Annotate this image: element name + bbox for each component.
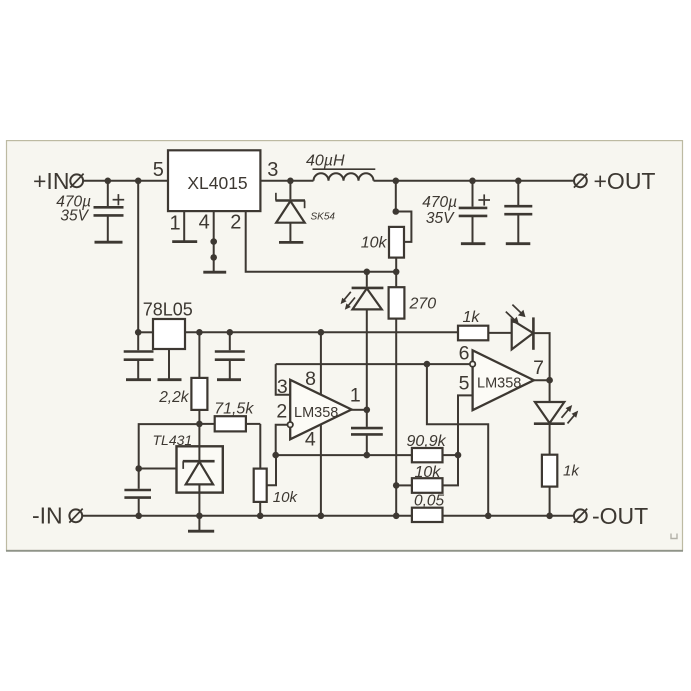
svg-text:3: 3 (267, 159, 278, 181)
node 270 top (393, 269, 400, 276)
wire pin 8 supply (320, 332, 322, 395)
svg-text:270: 270 (409, 296, 437, 313)
node C2 junction (469, 178, 476, 185)
node C7 bottom (364, 452, 371, 459)
node rail R2 chain bottom (393, 513, 400, 520)
wire D2 anode to U2 output (366, 309, 368, 409)
regulator U4 78L05 (153, 319, 185, 349)
svg-text:+OUT: +OUT (594, 168, 656, 194)
IC U1 XL4015 (168, 150, 260, 211)
wire top rail right segment (374, 180, 574, 182)
node U2 pin8 supply (318, 329, 325, 336)
wire pin 1 stub (183, 211, 185, 241)
svg-text:5: 5 (153, 159, 164, 181)
wire pin 2 feedback run (246, 211, 397, 272)
node rail C6 (135, 513, 142, 520)
wire R1 to node (395, 258, 397, 272)
node rail R5 bottom (257, 513, 264, 520)
ground bar of C1 (95, 241, 123, 244)
resistor R10 0,05 shunt (412, 508, 443, 522)
wire 5V rail (185, 331, 458, 333)
wire inverting sense net (276, 454, 412, 456)
wire R4 to R5 (259, 424, 261, 469)
node rail R9 bottom (546, 513, 553, 520)
node 10k wiper junction (393, 208, 400, 215)
resistor R1 10k (adjust) (389, 227, 404, 258)
wire pin 5 bend (458, 395, 473, 455)
terminal -OUT (574, 509, 587, 523)
wire pin 1 output stub (352, 409, 367, 411)
svg-text:1: 1 (169, 213, 180, 235)
ground bar of C5 (217, 378, 241, 381)
node 2.2k top (196, 329, 203, 336)
bubble pin 2 (U2) (288, 422, 293, 427)
wire 10k wiper loop (396, 212, 412, 242)
LED D3 indicator (512, 317, 550, 380)
node pin 5 junction (455, 452, 462, 459)
ground bar pin 4 (203, 271, 226, 274)
svg-text:1k: 1k (463, 309, 481, 326)
shunt regulator U5 TL431 (177, 424, 223, 516)
svg-text:470µ: 470µ (422, 194, 457, 211)
svg-text:SK54: SK54 (311, 212, 336, 223)
node C5 top (227, 329, 234, 336)
node rail TL431 anode (196, 513, 203, 520)
svg-text:7: 7 (533, 357, 544, 379)
arrows of D4 (562, 405, 579, 423)
ground bar of SK54 (279, 241, 303, 244)
node rail U2 pin4 (318, 513, 325, 520)
capacitor C7 (compensation) (351, 410, 383, 455)
svg-text:6: 6 (459, 343, 470, 365)
svg-text:0,05: 0,05 (414, 493, 445, 510)
svg-text:78L05: 78L05 (143, 300, 193, 320)
node C3 junction (515, 178, 522, 185)
diode D1 SK54 schottky (276, 181, 306, 242)
svg-text:XL4015: XL4015 (187, 173, 247, 193)
svg-text:-IN: -IN (32, 503, 63, 529)
node U2 output (364, 407, 371, 414)
wire ground rail left segment (82, 515, 412, 517)
svg-text:LM358: LM358 (477, 376, 521, 392)
node TL431 ref (135, 465, 142, 472)
wire 270 bottom long vertical (395, 319, 397, 516)
wire top rail mid segment (260, 180, 313, 182)
wire pin 4 stub (213, 211, 215, 271)
svg-text:2: 2 (230, 212, 241, 234)
capacitor C2 470u 35V (459, 181, 490, 243)
wire pin 2 input bend (276, 425, 288, 455)
node on pin 4 wire lower (210, 254, 217, 261)
svg-text:LM358: LM358 (294, 405, 338, 421)
node 78L05 feed junction (135, 178, 142, 185)
svg-text:35V: 35V (426, 210, 455, 227)
svg-text:2,2k: 2,2k (158, 389, 190, 406)
capacitor C5 (78L05 output) (215, 332, 245, 379)
svg-text:2: 2 (276, 401, 287, 423)
LED D4 indicator (534, 380, 565, 455)
svg-text:35V: 35V (60, 208, 89, 225)
svg-text:+IN: +IN (33, 168, 69, 194)
node LED D2 top (364, 269, 371, 276)
node U3 output (546, 377, 553, 384)
bubble pin 6 (U3) (470, 361, 475, 366)
resistor R5 10k (trimmer) (254, 455, 276, 516)
node R5 wiper junction (272, 452, 279, 459)
ground bar 78L05 (158, 378, 182, 381)
svg-text:5: 5 (459, 373, 470, 395)
stray mark bottom right (671, 534, 677, 539)
ground bar of C4 (126, 378, 151, 381)
svg-text:1: 1 (350, 385, 361, 407)
wire pin 3 input bend (276, 364, 291, 395)
resistor R8 1k (458, 326, 512, 341)
wire top rail left segment (83, 180, 168, 182)
svg-text:10k: 10k (361, 235, 388, 252)
node 10k sense top (393, 178, 400, 185)
node SK54 junction (287, 178, 294, 185)
wire tap to ground rail (427, 364, 488, 516)
svg-text:-OUT: -OUT (592, 503, 648, 529)
inductor L1 core line (313, 168, 376, 170)
resistor R7 10k (396, 455, 458, 493)
svg-text:1k: 1k (563, 463, 580, 480)
capacitor C4 (78L05 input) (124, 332, 154, 379)
wire pin 4 to ground rail (320, 425, 322, 516)
svg-text:4: 4 (199, 212, 210, 234)
svg-text:90,9k: 90,9k (407, 433, 447, 450)
terminal +OUT (574, 174, 587, 188)
node C1 junction (105, 178, 112, 185)
node R7 left (393, 482, 400, 489)
ground bar pin 1 (172, 240, 197, 243)
capacitor C1 470u 35V (94, 181, 125, 241)
node rail sense tap (485, 513, 492, 520)
wire TL431 ref run (139, 424, 200, 468)
terminal +IN (70, 174, 83, 188)
schematic panel (7, 141, 683, 551)
svg-text:8: 8 (305, 368, 316, 390)
wire 10k sense top stub (395, 181, 397, 212)
resistor R6 90,9k (412, 448, 458, 462)
terminal -IN (69, 509, 82, 523)
arrows of D3 (506, 305, 526, 325)
svg-text:TL431: TL431 (153, 432, 193, 448)
wire pin3-pin6 net (276, 363, 470, 365)
svg-text:4: 4 (305, 429, 316, 451)
wire 78L05 ground pin (168, 349, 170, 379)
ground bar of C2 (461, 242, 486, 245)
inductor L1 40uH (314, 173, 374, 180)
ground bar TL431 (188, 530, 214, 533)
wire pin 7 output stub (534, 379, 550, 381)
resistor R4 71,5k (199, 416, 260, 431)
capacitor C3 output (504, 181, 532, 243)
op-amp U2 LM358 (A) (290, 380, 351, 440)
svg-text:10k: 10k (415, 464, 442, 481)
resistor R2 270 (389, 272, 405, 319)
resistor R3 2.2k (191, 332, 207, 424)
capacitor C6 (TL431 ref) (124, 469, 151, 516)
wire ground rail right segment (443, 515, 574, 517)
panel bottom shadow line (6, 550, 683, 552)
wire +IN to 78L05 vertical (137, 181, 139, 332)
node sense divider tap (424, 361, 431, 368)
wire 78L05 input stub (138, 331, 153, 333)
ground stub below TL431 (198, 516, 200, 531)
svg-text:40µH: 40µH (306, 153, 345, 170)
LED D2 (feedback diode) (352, 272, 384, 310)
node on pin 4 wire upper (210, 238, 217, 245)
svg-text:71,5k: 71,5k (214, 401, 254, 418)
resistor R9 1k (542, 455, 557, 516)
ground bar of C3 (506, 242, 531, 245)
node TL431 cathode junction (196, 421, 203, 428)
arrows of D2 (341, 292, 355, 310)
node 78L05 input (135, 329, 142, 336)
op-amp U3 LM358 (B) (473, 350, 534, 410)
svg-text:10k: 10k (273, 489, 299, 506)
